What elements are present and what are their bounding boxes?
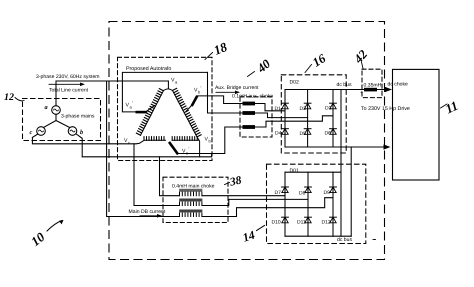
svg-text:D01: D01 — [290, 168, 300, 174]
system boundary dashed box 10 — [109, 22, 385, 260]
svg-text:0.4mH main choke: 0.4mH main choke — [172, 184, 215, 190]
wire main bridge negative riser — [350, 147, 352, 236]
label 12 with leader — [4, 92, 24, 103]
svg-text:To 230V 15 Hp Drive: To 230V 15 Hp Drive — [361, 106, 410, 112]
wire main bridge positive riser — [340, 90, 342, 237]
Aux. Bridge current arrow — [215, 85, 259, 94]
svg-text:D2: D2 — [300, 106, 307, 112]
svg-text:D12: D12 — [322, 220, 331, 226]
aux choke L2 — [243, 111, 256, 115]
aux bridge leg 3 — [332, 90, 334, 148]
node Va apex — [164, 89, 173, 91]
svg-text:D02: D02 — [290, 80, 300, 86]
diode D11 — [297, 217, 311, 225]
diode D4 — [275, 129, 288, 137]
svg-text:+: + — [360, 90, 363, 96]
svg-text:': ' — [201, 86, 202, 91]
svg-text:c: c — [30, 129, 33, 136]
wire tap va' loop over triangle to aux choke 2 — [122, 72, 207, 112]
drive box 11 — [393, 69, 440, 180]
svg-text:c: c — [128, 140, 130, 145]
value label 0.35mH dc choke — [364, 82, 409, 89]
ac source a — [45, 104, 61, 114]
wire phase b to node Vb — [77, 134, 212, 157]
aux bridge leg 1 — [284, 90, 286, 148]
svg-text:D9: D9 — [324, 190, 331, 196]
svg-text:0.1mH aux. choke: 0.1mH aux. choke — [232, 94, 273, 100]
wire va' drop to aux choke 2 — [208, 72, 243, 113]
svg-text:D3: D3 — [325, 106, 332, 112]
svg-text:dc bus: dc bus — [337, 237, 352, 243]
Main DB current arrow — [129, 209, 166, 218]
label dc bus (bottom) — [337, 237, 376, 243]
svg-text:D5: D5 — [300, 131, 307, 137]
wire node Vc down to main choke B — [134, 144, 180, 206]
wire main choke B to bridge leg 2 — [202, 199, 308, 205]
svg-text:D10: D10 — [272, 220, 281, 226]
ac source b — [68, 127, 83, 136]
autotransformer winding Vc-Vb (bottom) — [144, 137, 198, 141]
svg-text:': ' — [132, 101, 133, 106]
tap bar vc' — [170, 143, 178, 153]
main choke A — [180, 189, 203, 196]
ac source c — [30, 127, 46, 136]
diode D10 — [272, 217, 289, 225]
diode D3 — [325, 103, 336, 111]
svg-text:dc bus: dc bus — [337, 82, 352, 88]
diode D5 — [300, 129, 312, 137]
svg-text:D4: D4 — [275, 131, 282, 137]
label 10 with arrow — [28, 220, 63, 249]
autotransformer dashed box 18 — [118, 57, 213, 160]
wire vc' to aux choke 3 — [177, 127, 242, 154]
label 16 with leader — [305, 51, 329, 73]
aux choke L1 — [243, 102, 256, 106]
svg-text:Main DB current: Main DB current — [129, 209, 166, 215]
label 18 with leader — [205, 39, 230, 60]
wire phase b down to main choke A — [160, 157, 180, 196]
aux bridge dashed box 16 — [281, 75, 346, 153]
aux choke L3 — [243, 125, 256, 129]
diode D8 — [299, 187, 311, 197]
label 40 with leader — [248, 56, 274, 76]
main bridge dashed box 14 — [267, 164, 366, 243]
autotransformer winding Vc-Va (left) — [136, 89, 163, 136]
wire aux choke 3 to bridge leg 3 — [255, 116, 333, 127]
svg-text:D8: D8 — [299, 191, 306, 197]
svg-text:b: b — [80, 129, 83, 136]
wire main choke C to bridge leg 3 — [202, 198, 333, 217]
main bridge negative rail — [285, 235, 351, 237]
aux bridge leg 2 — [307, 90, 309, 148]
dc choke — [364, 88, 377, 92]
diode D12 — [322, 217, 337, 225]
wire vb' to aux choke 1 — [197, 96, 243, 104]
arrow dc bus positive into drive — [385, 87, 392, 92]
svg-text:dc choke: dc choke — [388, 82, 409, 88]
wye neutral junction wires — [44, 114, 70, 127]
diode D2 — [300, 103, 312, 112]
svg-text:D1: D1 — [275, 106, 282, 112]
diode D7 — [275, 187, 289, 196]
main choke C — [180, 210, 203, 217]
wire phase a to node Va — [56, 81, 168, 106]
svg-text:Aux. Bridge current: Aux. Bridge current — [215, 85, 259, 91]
diode D1 — [275, 103, 289, 112]
svg-text:Proposed Autotrafo: Proposed Autotrafo — [126, 66, 171, 72]
tap bar va' — [137, 111, 146, 114]
main choke dashed box 38 — [163, 177, 228, 222]
main choke B — [180, 199, 203, 206]
node label Vc — [124, 138, 130, 145]
svg-text:D6: D6 — [325, 131, 332, 137]
Total Line current arrow — [49, 83, 89, 94]
svg-text:3-phase mains: 3-phase mains — [61, 114, 95, 120]
svg-text:D11: D11 — [297, 220, 306, 226]
arrow dc bus negative into drive — [384, 144, 391, 149]
svg-text:D7: D7 — [275, 190, 282, 196]
node label va' — [126, 101, 134, 110]
main bridge leg 3 — [332, 172, 334, 236]
diode D9 — [324, 187, 337, 196]
label 11 with leader — [441, 98, 461, 117]
autotransformer winding Va-Vb (right) — [173, 88, 202, 137]
diode D6 — [325, 129, 337, 137]
label 38 with leader — [225, 174, 243, 188]
wire phase c to node Vc — [32, 134, 144, 144]
svg-text:3-phase 230V, 60Hz system: 3-phase 230V, 60Hz system — [36, 74, 100, 80]
svg-text:Total Line current: Total Line current — [49, 88, 89, 94]
node label Va — [171, 78, 178, 85]
main bridge positive rail — [285, 171, 341, 173]
svg-text:0.35mH: 0.35mH — [364, 83, 382, 89]
wire main choke A to bridge leg 1 — [202, 195, 285, 197]
node label vb' — [194, 86, 202, 95]
dc choke dashed box 42 — [362, 69, 382, 97]
main bridge leg 2 — [307, 172, 309, 236]
dc bus positive rail — [285, 89, 386, 91]
tap bar vb' — [186, 97, 197, 112]
node label Vb — [205, 137, 212, 144]
node label vc' — [182, 147, 190, 156]
wire aux choke 2 to bridge leg 2 — [255, 113, 308, 118]
svg-text:': ' — [189, 147, 190, 152]
wire phase a down to main choke C — [107, 81, 180, 217]
label 42 with leader — [351, 47, 370, 68]
main bridge leg 1 — [284, 172, 286, 236]
svg-text:a: a — [45, 104, 48, 111]
aux choke dashed box 40 — [240, 97, 272, 137]
dc bus negative rail — [285, 146, 384, 148]
wire node Vb down to phase b line — [198, 138, 200, 157]
svg-text:12: 12 — [4, 92, 14, 103]
wire aux choke 1 to bridge leg 1 — [255, 104, 285, 111]
3-phase source dashed box 12 — [23, 99, 101, 141]
label 14 with leader — [241, 226, 265, 245]
